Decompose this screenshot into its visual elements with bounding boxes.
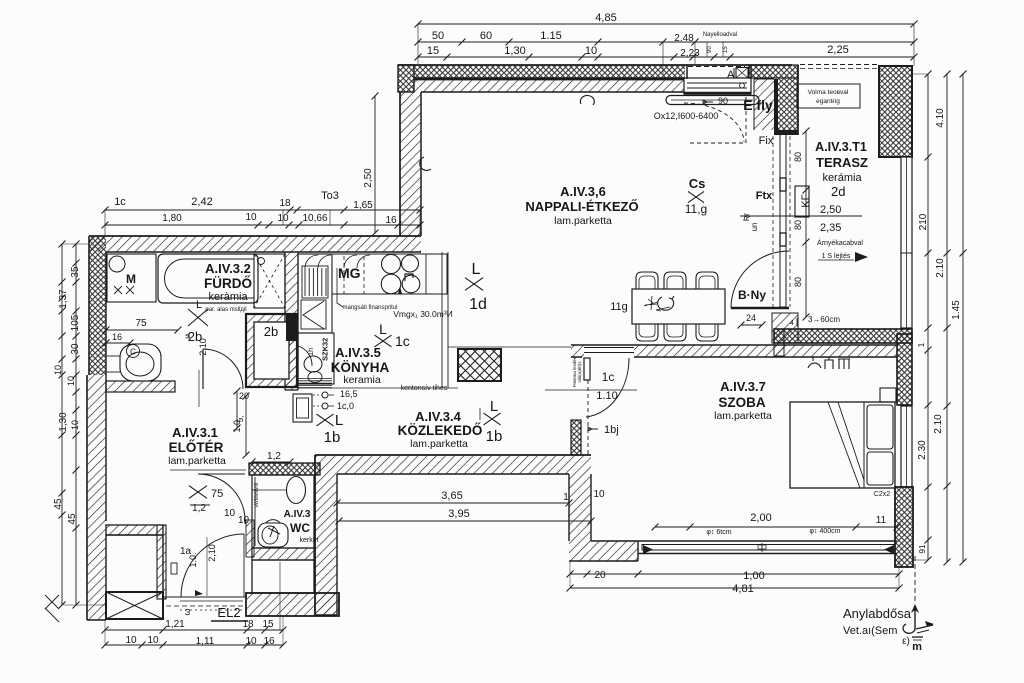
svg-text:10: 10 xyxy=(53,365,63,375)
svg-text:10: 10 xyxy=(66,376,76,386)
svg-text:E fly: E fly xyxy=(743,97,773,113)
svg-text:2,50: 2,50 xyxy=(363,168,374,188)
svg-text:1.0,: 1.0, xyxy=(232,417,242,432)
svg-text:KÖZLEKEDŐ: KÖZLEKEDŐ xyxy=(398,423,483,438)
svg-text:10: 10 xyxy=(125,635,137,646)
svg-text:1,30: 1,30 xyxy=(58,412,69,432)
svg-text:kerket: kerket xyxy=(299,537,318,544)
svg-text:2.10: 2.10 xyxy=(933,414,944,434)
svg-text:1,65: 1,65 xyxy=(353,200,373,211)
svg-text:mangsáti finanspritul: mangsáti finanspritul xyxy=(342,305,397,311)
svg-text:1c,0: 1c,0 xyxy=(337,401,354,411)
svg-text:EL2: EL2 xyxy=(217,605,240,620)
svg-text:Vmgх₁ 30.0m³И: Vmgх₁ 30.0m³И xyxy=(393,309,453,319)
svg-text:SZK32: SZK32 xyxy=(321,338,330,361)
svg-text:lam.parketta: lam.parketta xyxy=(168,455,226,467)
svg-text:80: 80 xyxy=(793,152,803,162)
svg-text:15: 15 xyxy=(427,45,439,57)
svg-text:10,66: 10,66 xyxy=(302,213,327,224)
svg-text:1.10: 1.10 xyxy=(596,390,617,402)
svg-text:10: 10 xyxy=(224,508,236,519)
svg-text:210: 210 xyxy=(918,213,929,230)
svg-text:1.45: 1.45 xyxy=(951,300,962,320)
svg-text:10: 10 xyxy=(593,489,605,500)
svg-text:2,10: 2,10 xyxy=(207,544,217,562)
svg-text:ω: ω xyxy=(182,608,192,615)
svg-text:NAPPALI-ÉTKEZŐ: NAPPALI-ÉTKEZŐ xyxy=(525,199,638,214)
svg-text:80: 80 xyxy=(793,220,803,230)
svg-text:egantғig: egantғig xyxy=(816,98,840,105)
svg-text:3→60cm: 3→60cm xyxy=(808,315,840,324)
svg-text:10: 10 xyxy=(245,212,257,223)
svg-text:2,42: 2,42 xyxy=(191,196,212,208)
svg-text:20: 20 xyxy=(594,570,606,581)
svg-text:1b: 1b xyxy=(486,428,503,445)
svg-text:lam.parketta: lam.parketta xyxy=(554,215,612,227)
svg-text:45: 45 xyxy=(53,498,64,510)
svg-text:ε): ε) xyxy=(902,636,910,647)
svg-text:2,50: 2,50 xyxy=(820,204,841,216)
svg-text:L: L xyxy=(472,261,481,278)
svg-text:11g: 11g xyxy=(610,301,628,313)
svg-text:C: C xyxy=(130,348,136,357)
svg-text:45: 45 xyxy=(67,513,78,525)
svg-text:1,30: 1,30 xyxy=(504,45,525,57)
svg-text:KГ: KГ xyxy=(800,194,812,207)
svg-text:A.IV.3.7: A.IV.3.7 xyxy=(720,379,766,394)
svg-text:Ox12,І600-6400: Ox12,І600-6400 xyxy=(654,111,719,121)
svg-text:105: 105 xyxy=(70,314,81,331)
svg-text:FÜRDŐ: FÜRDŐ xyxy=(204,276,252,291)
svg-text:C2х2: C2х2 xyxy=(874,491,890,498)
svg-text:A.IV.3.4: A.IV.3.4 xyxy=(415,409,462,424)
svg-text:4.10: 4.10 xyxy=(935,108,946,128)
svg-text:60: 60 xyxy=(480,30,492,42)
svg-text:1: 1 xyxy=(917,342,926,347)
svg-text:B·Ny: B·Ny xyxy=(738,288,766,302)
svg-text:18: 18 xyxy=(279,198,291,209)
svg-text:10: 10 xyxy=(147,635,159,646)
svg-text:keramia: keramia xyxy=(343,374,381,386)
svg-text:A.IV.3.1: A.IV.3.1 xyxy=(172,425,218,440)
svg-text:φ↕ 6tcm: φ↕ 6tcm xyxy=(706,529,731,536)
svg-text:L: L xyxy=(196,299,202,311)
svg-text:1c: 1c xyxy=(395,333,410,349)
svg-text:Volma teoвval: Volma teoвval xyxy=(808,89,849,96)
svg-text:L: L xyxy=(490,398,498,415)
svg-text:SZOBA: SZOBA xyxy=(718,395,766,410)
svg-text:2b: 2b xyxy=(264,324,278,339)
svg-text:1,80: 1,80 xyxy=(162,213,182,224)
svg-text:2.48: 2.48 xyxy=(674,33,694,44)
svg-text:75: 75 xyxy=(211,488,223,500)
svg-text:Árnyékacabval: Árnyékacabval xyxy=(817,238,863,247)
svg-text:1,11: 1,11 xyxy=(196,636,215,647)
svg-text:ELŐTÉR: ELŐTÉR xyxy=(169,440,224,455)
svg-text:Ftx: Ftx xyxy=(756,190,773,202)
svg-text:1,21: 1,21 xyxy=(165,619,185,630)
svg-text:1: 1 xyxy=(563,492,569,503)
svg-text:A.IV.3.5: A.IV.3.5 xyxy=(335,345,381,360)
svg-text:sWMvNVIII: sWMvNVIII xyxy=(254,483,260,508)
svg-text:1,2: 1,2 xyxy=(267,451,281,462)
svg-text:A.IV.3: A.IV.3 xyxy=(284,509,311,520)
svg-text:15: 15 xyxy=(723,46,729,53)
svg-text:10: 10 xyxy=(245,636,257,647)
svg-text:Nayelloadval: Nayelloadval xyxy=(703,32,737,38)
svg-text:ѩ: ѩ xyxy=(183,333,192,339)
svg-text:2,23: 2,23 xyxy=(680,48,700,59)
svg-text:A.IV.3.T1: A.IV.3.T1 xyxy=(815,140,867,154)
svg-text:MG: MG xyxy=(338,265,361,281)
svg-text:16: 16 xyxy=(112,332,122,342)
svg-text:20: 20 xyxy=(239,391,249,401)
svg-text:1d: 1d xyxy=(469,296,487,313)
svg-text:11: 11 xyxy=(876,515,887,526)
svg-text:2d: 2d xyxy=(831,184,845,199)
svg-text:90: 90 xyxy=(718,96,728,106)
svg-text:1.0.: 1.0. xyxy=(188,552,198,567)
svg-text:15: 15 xyxy=(262,619,274,630)
svg-text:1bj: 1bj xyxy=(604,424,619,436)
svg-text:10: 10 xyxy=(585,45,597,57)
svg-text:Cs: Cs xyxy=(689,176,706,191)
svg-text:Fix: Fix xyxy=(759,135,774,147)
svg-text:2.30: 2.30 xyxy=(917,440,928,460)
svg-text:par. alas msllдil: par. alas msllдil xyxy=(205,307,246,313)
svg-text:un: un xyxy=(750,223,759,232)
svg-text:kerámia: kerámia xyxy=(822,172,862,184)
svg-text:A.IV.3,6: A.IV.3,6 xyxy=(560,184,606,199)
svg-text:30: 30 xyxy=(70,343,81,355)
svg-text:Anylabdősa: Anylabdősa xyxy=(843,606,912,621)
svg-text:91: 91 xyxy=(918,544,927,553)
svg-text:keràmia: keràmia xyxy=(208,291,248,303)
svg-text:3,95: 3,95 xyxy=(448,508,469,520)
svg-text:1c: 1c xyxy=(114,196,126,208)
svg-text:Vet.aı(Sem: Vet.aı(Sem xyxy=(843,625,897,637)
svg-text:KÖNYHA: KÖNYHA xyxy=(331,360,390,375)
svg-text:m: m xyxy=(912,641,922,653)
svg-text:1c: 1c xyxy=(602,370,615,384)
svg-text:L: L xyxy=(335,412,343,429)
svg-text:10: 10 xyxy=(277,213,289,224)
svg-text:90: 90 xyxy=(707,46,713,53)
svg-text:M: M xyxy=(126,272,136,286)
svg-text:1 Ѕ lejtés: 1 Ѕ lejtés xyxy=(822,253,851,260)
svg-text:lam.parketta: lam.parketta xyxy=(410,438,468,450)
svg-text:A.IV.3.2: A.IV.3.2 xyxy=(205,261,251,276)
svg-text:75: 75 xyxy=(135,318,147,329)
svg-text:1,00: 1,00 xyxy=(743,570,764,582)
svg-text:4: 4 xyxy=(790,320,794,327)
svg-text:10: 10 xyxy=(238,515,250,526)
svg-text:3,65: 3,65 xyxy=(441,490,462,502)
svg-text:silá(a)ritt)s: silá(a)ritt)s xyxy=(577,361,582,383)
svg-text:4,81: 4,81 xyxy=(732,583,753,595)
svg-text:To3: To3 xyxy=(321,190,339,202)
svg-text:1b: 1b xyxy=(324,429,341,446)
svg-text:2.10: 2.10 xyxy=(935,258,946,278)
svg-text:16: 16 xyxy=(263,636,275,647)
svg-text:2,00: 2,00 xyxy=(750,512,771,524)
svg-text:11,g: 11,g xyxy=(685,202,707,216)
svg-text:10: 10 xyxy=(70,420,80,430)
svg-text:TERASZ: TERASZ xyxy=(816,155,868,170)
svg-text:4,85: 4,85 xyxy=(595,12,616,24)
svg-text:Ʀг: Ʀг xyxy=(742,213,751,221)
svg-text:16: 16 xyxy=(385,215,397,226)
svg-text:1.15: 1.15 xyxy=(540,30,561,42)
svg-text:lam.parketta: lam.parketta xyxy=(714,410,772,422)
svg-text:80: 80 xyxy=(793,277,803,287)
svg-text:kentonsív tihes: kentonsív tihes xyxy=(401,385,448,392)
svg-text:35: 35 xyxy=(70,266,81,278)
svg-text:16,5: 16,5 xyxy=(340,389,358,399)
svg-text:1,37: 1,37 xyxy=(58,289,69,309)
svg-text:24: 24 xyxy=(746,313,756,323)
svg-text:2,10: 2,10 xyxy=(198,338,208,356)
svg-text:φ↕ 400cm: φ↕ 400cm xyxy=(810,528,841,535)
svg-text:50: 50 xyxy=(432,30,444,42)
svg-text:1,2: 1,2 xyxy=(192,503,206,514)
svg-text:2,35: 2,35 xyxy=(820,222,841,234)
svg-text:2,25: 2,25 xyxy=(827,44,848,56)
svg-text:WC: WC xyxy=(290,521,310,535)
svg-text:L: L xyxy=(379,321,387,337)
